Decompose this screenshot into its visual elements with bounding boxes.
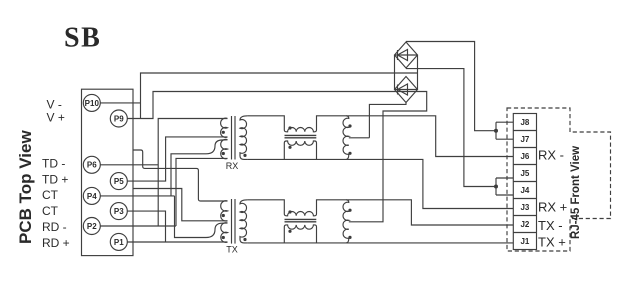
svg-text:J4: J4 xyxy=(520,186,529,195)
svg-text:RD +: RD + xyxy=(42,236,70,250)
svg-text:J7: J7 xyxy=(520,135,529,144)
svg-text:P2: P2 xyxy=(87,222,97,231)
svg-text:TD +: TD + xyxy=(42,173,68,187)
svg-text:CT: CT xyxy=(42,188,59,202)
svg-text:PCB Top View: PCB Top View xyxy=(16,130,35,244)
svg-text:J2: J2 xyxy=(520,220,529,229)
svg-text:TD -: TD - xyxy=(42,157,65,171)
svg-text:RX -: RX - xyxy=(538,148,564,163)
svg-text:V +: V + xyxy=(47,110,65,124)
svg-text:TX +: TX + xyxy=(538,235,566,250)
svg-text:P9: P9 xyxy=(114,114,124,123)
svg-text:TX -: TX - xyxy=(538,218,563,233)
svg-text:P5: P5 xyxy=(114,177,124,186)
svg-text:RX: RX xyxy=(226,161,239,171)
svg-text:SB: SB xyxy=(64,23,101,54)
svg-text:J5: J5 xyxy=(520,169,529,178)
svg-text:P4: P4 xyxy=(87,192,97,201)
svg-text:P3: P3 xyxy=(114,207,124,216)
svg-text:P6: P6 xyxy=(87,161,97,170)
svg-text:CT: CT xyxy=(42,204,59,218)
svg-text:P1: P1 xyxy=(114,238,124,247)
svg-text:RX +: RX + xyxy=(538,200,567,215)
svg-text:J3: J3 xyxy=(520,203,529,212)
svg-text:RD -: RD - xyxy=(42,220,67,234)
svg-text:TX: TX xyxy=(226,245,238,255)
svg-text:J1: J1 xyxy=(520,237,529,246)
svg-text:P10: P10 xyxy=(85,99,100,108)
svg-text:J8: J8 xyxy=(520,118,529,127)
svg-text:RJ-45 Front View: RJ-45 Front View xyxy=(570,146,582,239)
svg-text:J6: J6 xyxy=(520,152,529,161)
